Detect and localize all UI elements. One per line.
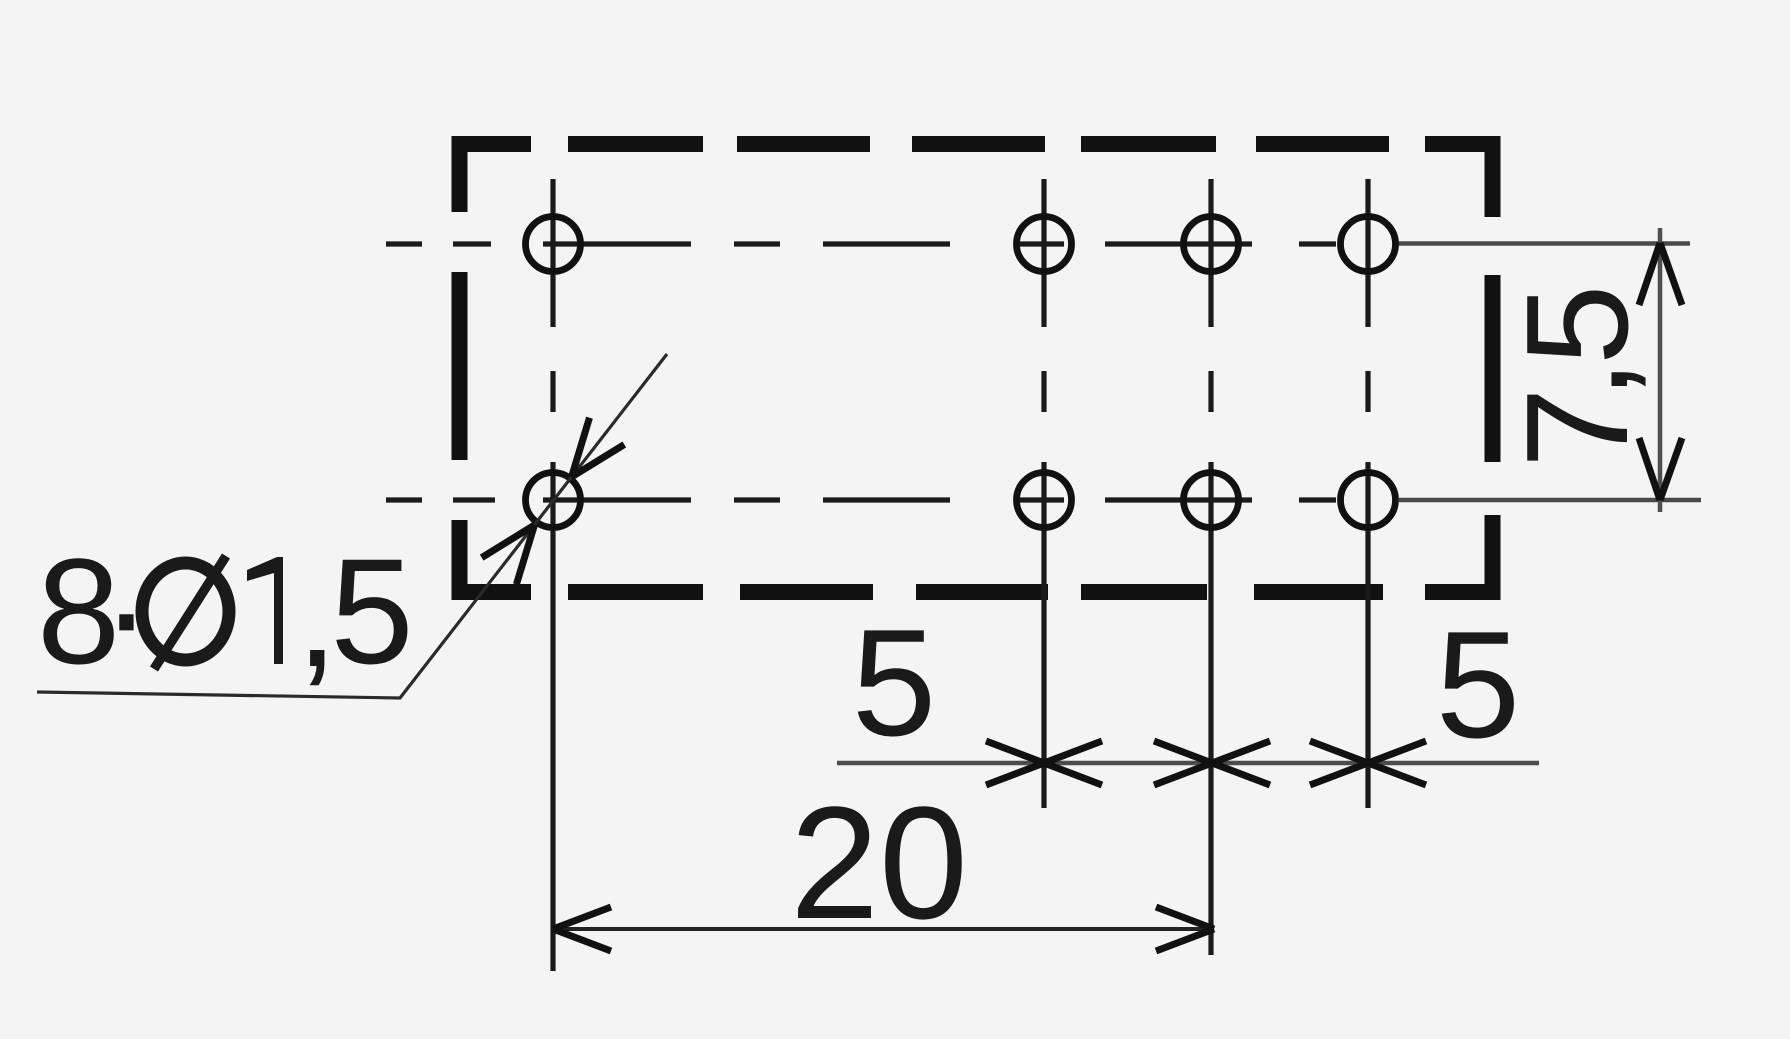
svg-text:5: 5 <box>1436 600 1521 770</box>
svg-text:,: , <box>296 530 338 698</box>
svg-text:5: 5 <box>852 598 937 768</box>
svg-text:5: 5 <box>1496 284 1658 365</box>
svg-text:20: 20 <box>790 773 968 952</box>
